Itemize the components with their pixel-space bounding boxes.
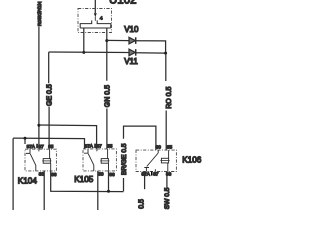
svg-text:SW 0.5: SW 0.5 — [164, 187, 171, 209]
wire K106 pin 87A down — [144, 172, 146, 190]
wire: right pin of U102 down (GN 0.5) to K105 pin 85 — [106, 28, 108, 149]
svg-text:K104: K104 — [18, 176, 38, 185]
relay label K104 — [18, 176, 38, 185]
wire V10 cathode to right corner — [136, 41, 166, 53]
svg-text:30: 30 — [39, 172, 45, 177]
relay label K105 — [74, 175, 94, 184]
wire from top into terminal 4 — [94, 0, 96, 13]
pin labels 30 86 (K104) — [39, 172, 57, 177]
svg-text:RO 0.5: RO 0.5 — [166, 87, 173, 109]
svg-text:87A: 87A — [27, 144, 36, 149]
svg-text:30: 30 — [156, 144, 162, 149]
svg-text:GE 0.5: GE 0.5 — [46, 84, 53, 106]
pin labels 87A|87 86 (K106 bottom) — [142, 171, 172, 176]
svg-text:K105: K105 — [74, 175, 94, 184]
wire BR/GE 0.5 from 86 bus up to K106 pin 30 — [124, 126, 156, 191]
wire V10 anode line — [107, 39, 129, 41]
svg-text:87A: 87A — [85, 144, 94, 149]
relay K104 coil wires 85/86 — [50, 149, 51, 171]
relay K106 contact — [144, 150, 158, 171]
svg-text:85: 85 — [107, 144, 113, 149]
pin labels 30 85 (K106 top) — [156, 144, 173, 149]
svg-text:85: 85 — [48, 144, 54, 149]
wire V11 anode line (from GE corner) — [49, 51, 129, 54]
wire bus C left leg to bottom edge — [12, 138, 14, 210]
wire K106 pin 86 down — [166, 172, 168, 189]
wire stub to K104 87A — [24, 138, 26, 144]
svg-text:GN 0.5: GN 0.5 — [105, 85, 112, 107]
svg-text:U102: U102 — [109, 0, 137, 6]
wire A: left feed down to K104 pin 87 — [38, 27, 40, 150]
label V10 — [124, 25, 139, 34]
wire K104 pin 86 down and right (86 bus) — [51, 171, 124, 192]
node: K105 86 joins 86 bus — [107, 190, 110, 193]
wire label RO 0.5 — [166, 87, 173, 109]
wire label GN 0.5 — [105, 85, 112, 107]
svg-text:30: 30 — [98, 172, 104, 177]
relay K104 coil — [42, 159, 51, 164]
svg-text:87: 87 — [39, 144, 45, 149]
terminal arrow pin — [94, 13, 97, 20]
node: diodes join — [164, 52, 167, 55]
relay K105 contact — [84, 149, 97, 171]
relay K104 contact — [26, 149, 39, 171]
svg-text:4: 4 — [100, 16, 103, 22]
wire K104 pin 30 to bottom edge — [43, 171, 45, 210]
wire bus B to K105 pin 87 — [39, 125, 97, 149]
svg-text:V11: V11 — [124, 57, 138, 66]
relay K105 coil wires 85/86 — [107, 149, 110, 171]
node: bus C tap to K104 87A — [24, 137, 27, 140]
svg-text:K106: K106 — [182, 155, 202, 164]
wire RO 0.5 from diodes down to K106 pin 85 — [165, 53, 167, 150]
wire V11 cathode to node — [136, 52, 166, 54]
component box U102 (dash-dot) — [78, 9, 112, 33]
svg-text:85: 85 — [167, 144, 173, 149]
pin labels 87A|87 85 (K104) — [27, 144, 54, 149]
connector socket shape — [80, 20, 111, 28]
pin labels 30 86 (K105) — [98, 172, 115, 177]
pin number 4 — [100, 16, 103, 22]
wire label GE 0.5 — [46, 84, 53, 106]
node: junction left pin / V11 line — [82, 51, 85, 54]
svg-text:87: 87 — [153, 171, 159, 176]
connector/device U102 label (cut off at top) — [109, 0, 137, 6]
svg-text:BR/GE 0.5: BR/GE 0.5 — [121, 143, 128, 175]
svg-text:86: 86 — [51, 172, 57, 177]
wire K105 pin 86 to 86 bus — [108, 171, 110, 191]
wire GE 0.5 from V11 line corner down to K104 pin 85 — [48, 52, 50, 149]
svg-text:V10: V10 — [124, 25, 139, 34]
svg-text:86: 86 — [109, 172, 115, 177]
relay label K106 — [182, 155, 202, 164]
pin labels 87A|87 85 (K105) — [85, 144, 113, 149]
wire bus C (87A bus) — [13, 138, 84, 149]
node: bus B taps wire A — [37, 124, 40, 127]
svg-text:R05K/P/1N: R05K/P/1N — [37, 1, 43, 26]
wire K105 pin 30 to bottom edge — [97, 171, 99, 210]
diode V10 — [129, 37, 136, 44]
wire label 0.5 (below K106 87A) — [139, 199, 146, 209]
relay K104 box (dash-dot) — [25, 149, 56, 171]
relay K105 box (dash-dot) — [83, 149, 116, 171]
svg-text:87: 87 — [97, 144, 103, 149]
node: junction GN wire / V10 line — [105, 39, 108, 42]
svg-text:0.5: 0.5 — [139, 199, 146, 209]
diode V11 — [129, 49, 136, 56]
relay K105 coil — [100, 159, 109, 164]
label V11 — [124, 57, 138, 66]
relay K106 coil — [160, 158, 169, 163]
relay K106 box (dash-dot) — [136, 150, 176, 171]
wire label SW 0.5 (below K106 86) — [164, 187, 171, 209]
wire label BR/GE 0.5 — [121, 143, 128, 175]
svg-text:87A: 87A — [142, 171, 151, 176]
wire: left pin of U102 down to V11 line — [83, 28, 85, 52]
relay K106 coil wires 85/86 — [167, 150, 170, 171]
wire label R05K/P/1N (left feed) — [37, 1, 43, 26]
